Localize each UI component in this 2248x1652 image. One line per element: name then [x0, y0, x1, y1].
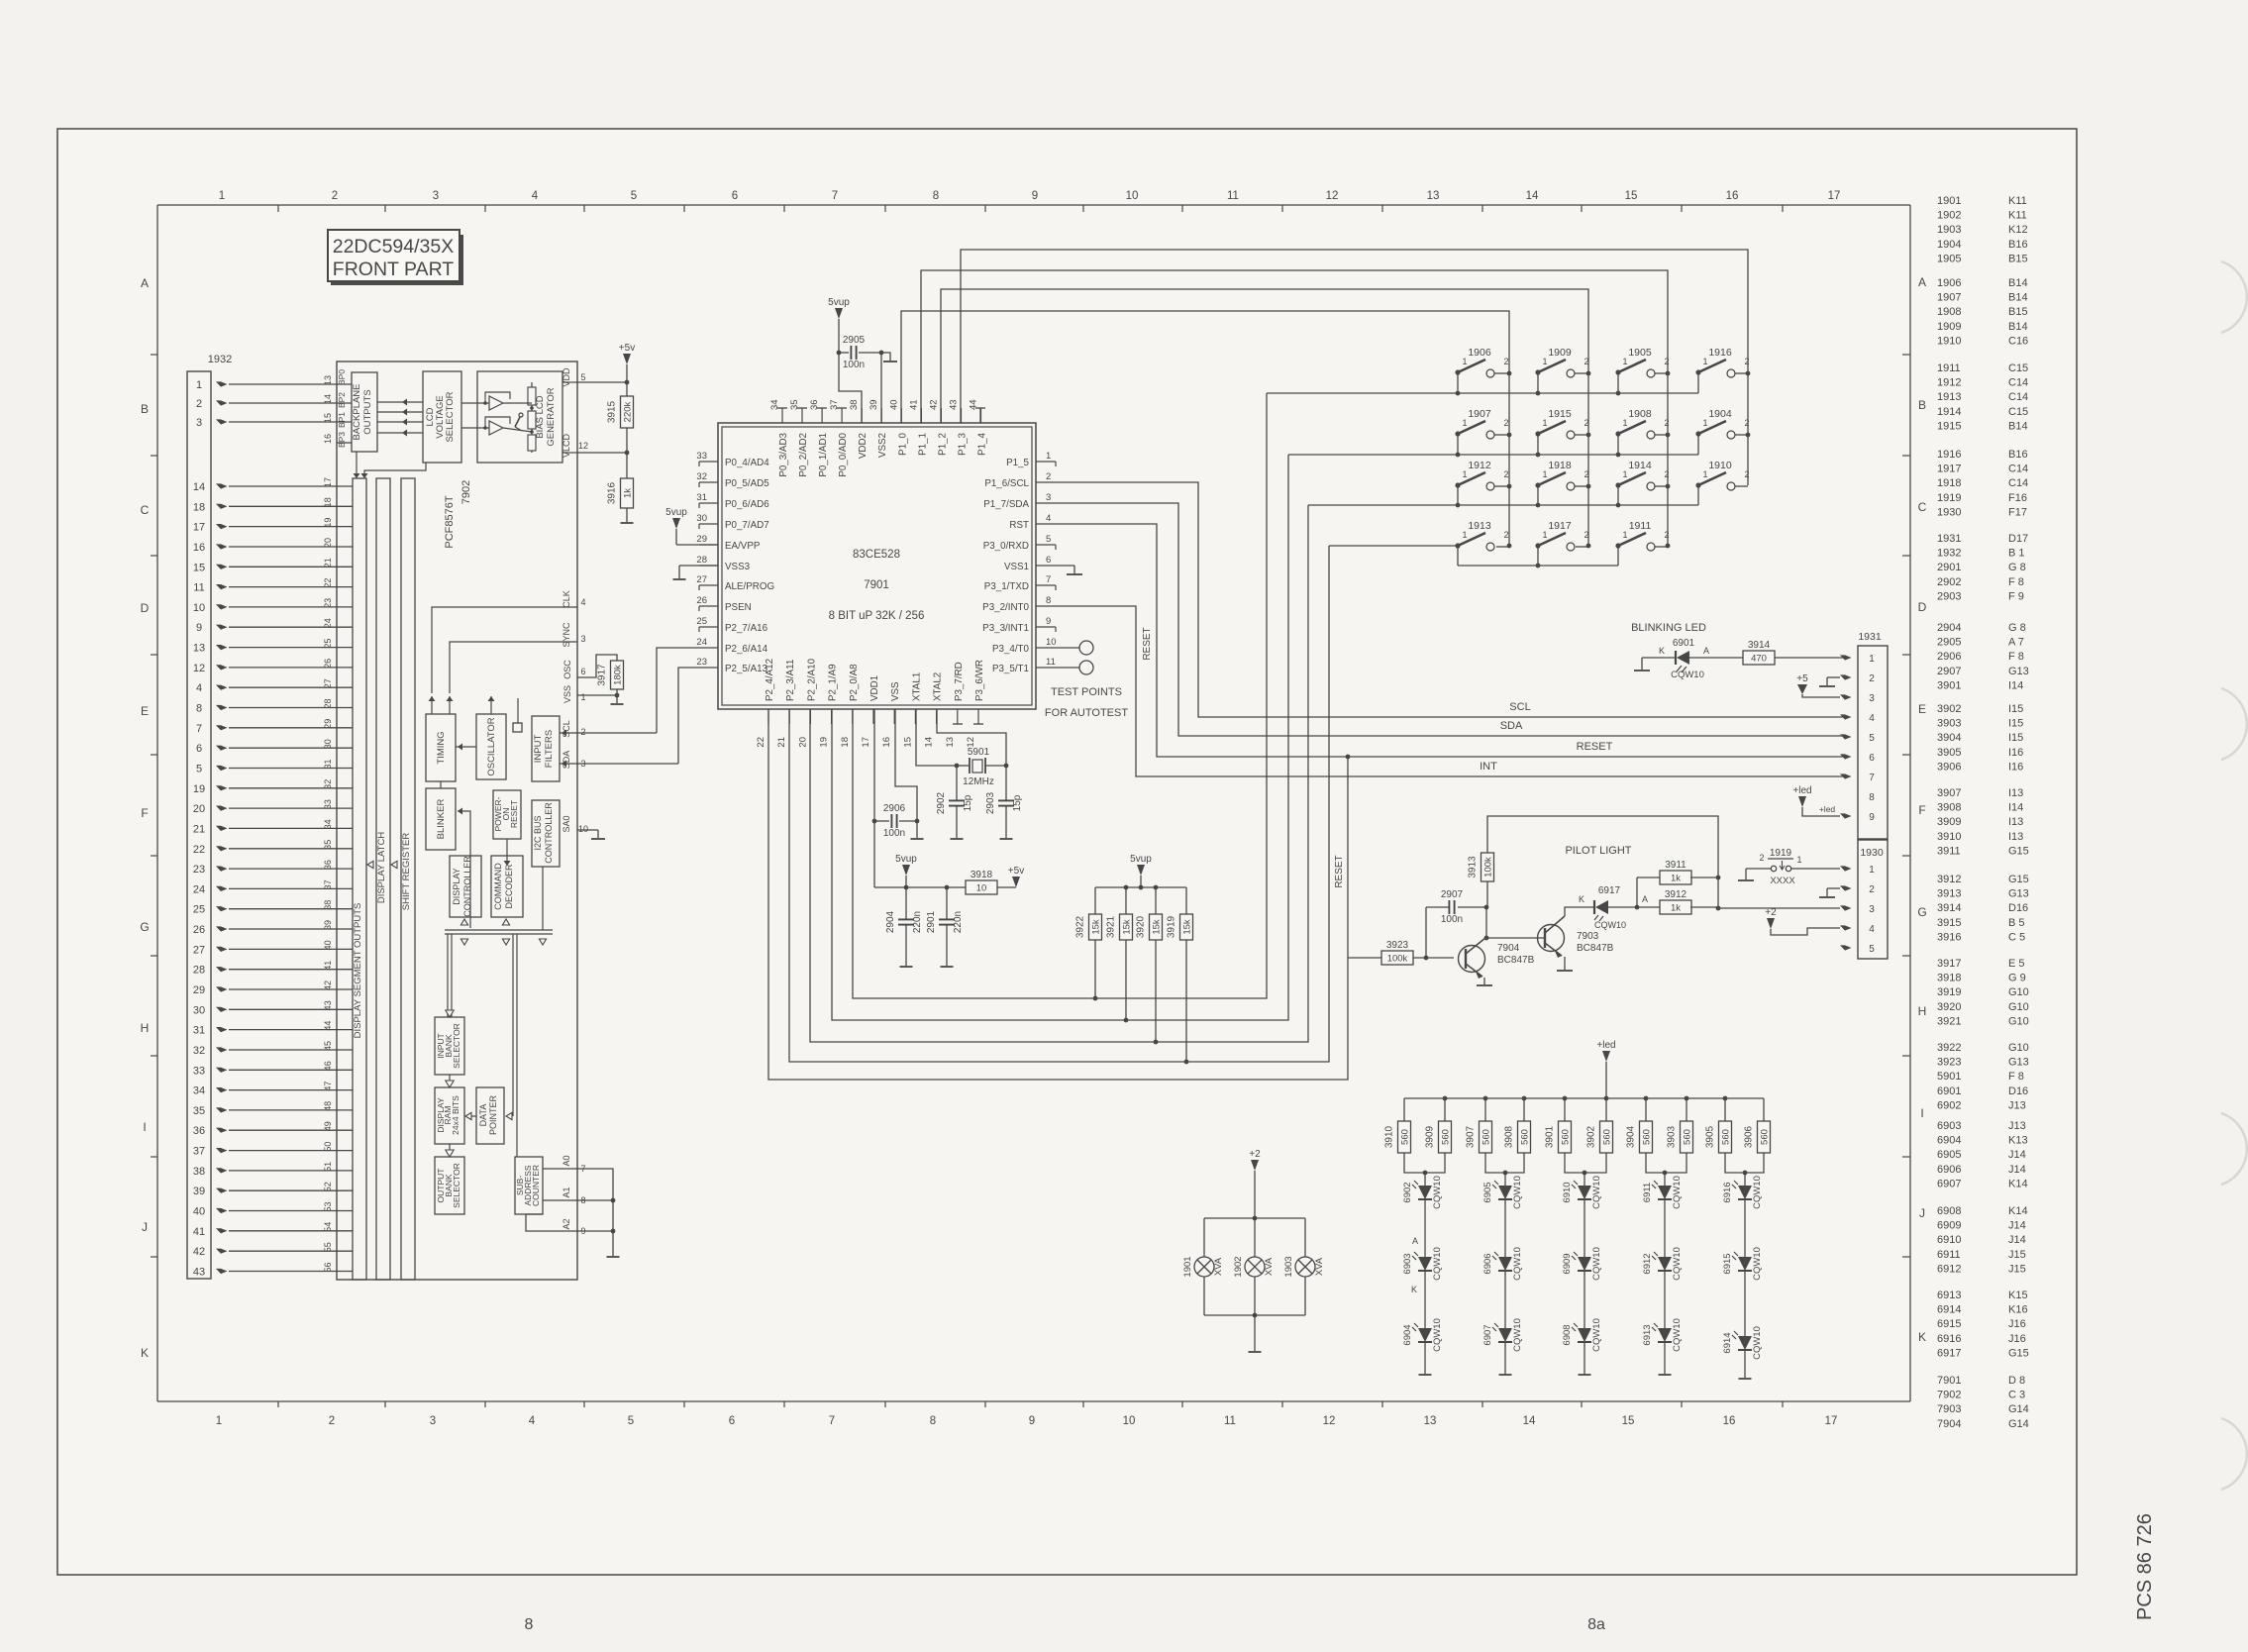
svg-text:DISPLAY: DISPLAY: [452, 868, 461, 904]
ground at 1930 pin 2: [1819, 888, 1840, 897]
svg-text:J: J: [142, 1220, 148, 1234]
svg-text:1: 1: [1542, 357, 1547, 366]
P1_4 pin 44 stub: [979, 408, 981, 423]
svg-text:7904: 7904: [1497, 943, 1520, 954]
svg-text:33: 33: [193, 1065, 205, 1077]
svg-text:560: 560: [1602, 1129, 1613, 1145]
svg-text:3902: 3902: [1586, 1125, 1597, 1148]
svg-text:SYNC: SYNC: [562, 622, 571, 648]
svg-text:8: 8: [933, 190, 939, 202]
svg-text:6912: 6912: [1642, 1253, 1653, 1274]
svg-text:2: 2: [1584, 357, 1588, 366]
svg-text:3914: 3914: [1748, 640, 1771, 651]
P2_0 pin 18 wire to key row 1 feed: [853, 393, 1267, 998]
svg-text:1: 1: [1542, 469, 1547, 479]
timing box: [426, 714, 456, 781]
svg-text:3919: 3919: [1167, 915, 1177, 938]
svg-text:15p: 15p: [1012, 794, 1023, 811]
svg-text:2: 2: [1869, 884, 1875, 895]
PCF backplane pin numbers 13-16: [323, 375, 333, 444]
svg-text:4: 4: [580, 597, 585, 607]
svg-text:1932: 1932: [208, 354, 232, 365]
VDD1 pin 17 wire to 5v rail: [872, 709, 877, 887]
svg-text:3: 3: [1869, 904, 1875, 915]
svg-text:2903: 2903: [1937, 590, 1961, 602]
svg-text:POINTER: POINTER: [488, 1095, 498, 1136]
SCL wire from P2_6 pin 24 to PCF: [657, 648, 699, 733]
svg-text:33: 33: [696, 451, 707, 462]
svg-text:15: 15: [323, 413, 333, 423]
svg-text:26: 26: [323, 659, 333, 669]
svg-text:8: 8: [525, 1616, 534, 1633]
svg-text:3913: 3913: [1937, 888, 1961, 900]
svg-text:1911: 1911: [1937, 362, 1961, 374]
switch 1904: [1695, 408, 1749, 439]
svg-text:3918: 3918: [1937, 973, 1961, 984]
svg-text:1932: 1932: [1937, 548, 1961, 560]
svg-text:2906: 2906: [1937, 651, 1961, 663]
svg-text:1: 1: [1796, 855, 1801, 865]
SDA wire from P2_5 pin 23 to PCF: [678, 668, 699, 764]
svg-text:2: 2: [580, 727, 585, 737]
svg-text:XVA: XVA: [1213, 1257, 1224, 1276]
test point circle pin 10: [1056, 641, 1093, 655]
svg-text:2905: 2905: [843, 335, 866, 346]
svg-text:10: 10: [1046, 637, 1057, 648]
svg-text:P0_5/AD5: P0_5/AD5: [725, 478, 769, 489]
svg-text:B14: B14: [2008, 277, 2028, 289]
svg-text:4: 4: [1869, 713, 1875, 724]
switch 1916: [1695, 347, 1749, 377]
svg-text:2902: 2902: [936, 791, 947, 814]
svg-text:G10: G10: [2008, 1042, 2029, 1054]
switch 1912: [1455, 460, 1509, 490]
svg-text:BC847B: BC847B: [1497, 955, 1535, 966]
resistor 3912 1k: [1637, 878, 1720, 914]
svg-text:20: 20: [193, 803, 205, 815]
RST pin 4 wire to RESET line: [1056, 524, 1843, 757]
svg-text:G10: G10: [2008, 986, 2029, 998]
P1_3 pin 43 wire to switch column 4: [961, 250, 1748, 485]
svg-text:6: 6: [1869, 753, 1875, 764]
svg-text:B15: B15: [2008, 306, 2028, 318]
unconnected stub ticks: [699, 408, 1056, 724]
svg-text:4: 4: [532, 190, 539, 202]
bus to input bank selector: [446, 934, 454, 1017]
test points caption: [1045, 686, 1128, 719]
svg-text:8: 8: [196, 703, 202, 715]
bias generator opamp symbols: [461, 392, 510, 435]
svg-text:P2_4/A12: P2_4/A12: [765, 659, 775, 701]
svg-text:1912: 1912: [1937, 377, 1961, 389]
svg-text:21: 21: [323, 558, 333, 568]
wires into display bus tops: [354, 452, 427, 478]
svg-text:15k: 15k: [1152, 919, 1163, 935]
svg-text:32: 32: [323, 779, 333, 789]
svg-text:7901: 7901: [864, 579, 889, 591]
A0 A1 A2 pins with external wires and ground: [526, 1155, 620, 1257]
svg-text:33: 33: [323, 799, 333, 809]
svg-text:13: 13: [945, 737, 956, 748]
svg-text:CQW10: CQW10: [1591, 1176, 1602, 1209]
svg-text:15p: 15p: [963, 794, 973, 811]
svg-text:17: 17: [1825, 1415, 1838, 1427]
switch 1915: [1535, 408, 1588, 439]
svg-text:SDA: SDA: [1500, 720, 1523, 732]
svg-text:11: 11: [1046, 657, 1056, 668]
resistor 3909 560: [1425, 1098, 1452, 1153]
connector 1931 pin numbers and arrows: [1840, 654, 1875, 823]
svg-text:5: 5: [196, 764, 202, 775]
svg-text:3901: 3901: [1545, 1125, 1556, 1148]
svg-text:3921: 3921: [1937, 1015, 1961, 1027]
svg-text:VSS3: VSS3: [725, 562, 751, 572]
switch 1906: [1455, 347, 1509, 377]
svg-text:47: 47: [323, 1082, 333, 1091]
svg-text:5vup: 5vup: [828, 297, 850, 308]
svg-text:K13: K13: [2008, 1135, 2028, 1147]
svg-text:5: 5: [628, 1415, 634, 1427]
svg-text:16: 16: [323, 434, 333, 444]
svg-text:I: I: [1920, 1106, 1923, 1120]
svg-text:1k: 1k: [623, 488, 634, 498]
svg-text:OSCILLATOR: OSCILLATOR: [486, 717, 497, 775]
svg-text:54: 54: [323, 1222, 333, 1232]
page border frame: [57, 129, 2077, 1575]
svg-text:7: 7: [1869, 773, 1875, 783]
SYNC pin 3 internal wire: [450, 622, 586, 693]
svg-text:22: 22: [323, 578, 333, 588]
BP0 BP2 BP1 BP3 labels: [337, 369, 347, 448]
svg-text:DISPLAY SEGMENT OUTPUTS: DISPLAY SEGMENT OUTPUTS: [353, 903, 363, 1039]
svg-text:43: 43: [323, 1000, 333, 1010]
svg-text:VDD1: VDD1: [869, 675, 880, 701]
svg-text:B14: B14: [2008, 420, 2028, 432]
svg-text:42: 42: [323, 981, 333, 990]
svg-text:6905: 6905: [1937, 1149, 1961, 1161]
svg-text:6904: 6904: [1937, 1135, 1961, 1147]
svg-text:10: 10: [193, 602, 205, 614]
svg-text:B: B: [141, 402, 149, 416]
svg-text:G14: G14: [2008, 1418, 2029, 1430]
LED 6901 CQW10 with ground: [1634, 638, 1743, 680]
SDA pin 3 wires: [560, 751, 586, 770]
resistor pair join at x=1681: [1646, 1153, 1686, 1175]
svg-text:1915: 1915: [1937, 420, 1961, 432]
svg-text:6916: 6916: [1937, 1333, 1961, 1345]
svg-text:2902: 2902: [1937, 576, 1961, 588]
svg-text:15k: 15k: [1182, 919, 1193, 935]
svg-text:7901: 7901: [1937, 1375, 1961, 1387]
svg-text:J14: J14: [2008, 1149, 2026, 1161]
svg-text:1906: 1906: [1937, 277, 1961, 289]
svg-text:F: F: [1918, 803, 1925, 817]
P2_3 pin 21 wire to key row 4 feed: [789, 546, 1329, 1062]
svg-text:2906: 2906: [883, 803, 906, 814]
svg-text:SELECTOR: SELECTOR: [452, 1163, 461, 1208]
svg-text:3905: 3905: [1705, 1125, 1716, 1148]
svg-text:B16: B16: [2008, 239, 2028, 251]
svg-text:I15: I15: [2008, 718, 2023, 730]
switch 1914: [1615, 460, 1669, 490]
svg-text:9: 9: [196, 622, 202, 634]
svg-text:6915: 6915: [1937, 1318, 1961, 1330]
svg-text:G13: G13: [2008, 888, 2029, 900]
svg-text:A1: A1: [562, 1187, 571, 1197]
svg-text:7903: 7903: [1937, 1403, 1961, 1415]
svg-text:1: 1: [1702, 469, 1707, 479]
svg-text:J16: J16: [2008, 1333, 2026, 1345]
svg-text:2904: 2904: [885, 910, 896, 933]
bias generator resistor chain and switch: [503, 382, 536, 453]
svg-text:K14: K14: [2008, 1205, 2028, 1217]
svg-text:28: 28: [323, 698, 333, 708]
svg-text:7904: 7904: [1937, 1418, 1961, 1430]
svg-text:COMMAND: COMMAND: [493, 863, 503, 910]
svg-text:P0_2/AD2: P0_2/AD2: [798, 433, 809, 477]
svg-text:19: 19: [819, 737, 830, 748]
resistor 3906 560: [1744, 1098, 1771, 1153]
svg-text:2: 2: [1869, 673, 1875, 684]
svg-text:2: 2: [1759, 853, 1764, 863]
svg-text:1: 1: [1702, 418, 1707, 428]
svg-text:7902: 7902: [460, 480, 472, 504]
svg-text:5: 5: [1046, 534, 1051, 545]
LED 6917 CQW10: [1565, 885, 1648, 930]
test point circle pin 11: [1056, 661, 1093, 674]
svg-text:P3_7/RD: P3_7/RD: [954, 662, 965, 701]
LED 6902 CQW10: [1402, 1176, 1443, 1209]
svg-text:+led: +led: [1819, 804, 1836, 814]
svg-text:560: 560: [1441, 1129, 1452, 1145]
svg-text:A: A: [1642, 894, 1648, 904]
svg-text:12: 12: [193, 663, 205, 674]
svg-text:52: 52: [323, 1182, 333, 1191]
svg-text:P0_6/AD6: P0_6/AD6: [725, 499, 769, 510]
binder hole arcs right margin: [2221, 261, 2247, 1490]
svg-text:25: 25: [323, 639, 333, 649]
svg-text:J16: J16: [2008, 1318, 2026, 1330]
svg-text:K16: K16: [2008, 1304, 2028, 1316]
svg-text:15: 15: [1625, 190, 1638, 202]
svg-text:27: 27: [193, 944, 205, 956]
svg-text:36: 36: [193, 1125, 205, 1137]
svg-text:2: 2: [1664, 418, 1669, 428]
svg-text:15: 15: [902, 737, 913, 748]
LED 6912 CQW10: [1642, 1247, 1683, 1281]
shift register bus: [401, 478, 415, 1280]
svg-text:K15: K15: [2008, 1290, 2028, 1301]
svg-text:32: 32: [193, 1045, 205, 1057]
svg-text:1: 1: [1622, 469, 1627, 479]
svg-text:6913: 6913: [1642, 1324, 1653, 1345]
svg-text:9: 9: [1032, 190, 1038, 202]
svg-text:XTAL2: XTAL2: [933, 672, 944, 701]
svg-text:J13: J13: [2008, 1120, 2026, 1132]
svg-text:+led: +led: [1792, 785, 1811, 796]
svg-text:1: 1: [1462, 530, 1467, 540]
svg-text:8a: 8a: [1587, 1616, 1605, 1633]
svg-text:17: 17: [1828, 190, 1841, 202]
svg-text:3920: 3920: [1937, 1001, 1961, 1013]
svg-text:K: K: [1579, 894, 1584, 904]
svg-text:26: 26: [193, 924, 205, 936]
resistor 3920 15k: [1136, 887, 1163, 1044]
svg-text:BIAS LCD: BIAS LCD: [535, 395, 546, 438]
resistor 3919 15k: [1167, 887, 1193, 1064]
svg-text:I14: I14: [2008, 679, 2023, 691]
svg-text:6912: 6912: [1937, 1263, 1961, 1275]
svg-text:J15: J15: [2008, 1263, 2026, 1275]
row letters left: [140, 276, 149, 1360]
svg-text:J15: J15: [2008, 1249, 2026, 1261]
svg-text:4: 4: [1046, 513, 1051, 524]
svg-text:9: 9: [1869, 812, 1875, 823]
column numbers bottom: [216, 1415, 1838, 1427]
svg-text:12: 12: [966, 737, 976, 748]
CLK pin 4 internal wire: [432, 590, 586, 693]
svg-text:D 8: D 8: [2008, 1375, 2025, 1387]
svg-text:2: 2: [1744, 418, 1749, 428]
svg-text:220n: 220n: [953, 911, 964, 933]
svg-text:3923: 3923: [1386, 940, 1409, 951]
svg-text:470: 470: [1751, 654, 1767, 665]
svg-text:6: 6: [580, 667, 585, 676]
svg-text:28: 28: [696, 555, 707, 566]
command decoder box: [491, 856, 523, 917]
oscillator box: [476, 714, 506, 779]
svg-text:G 8: G 8: [2008, 562, 2026, 573]
svg-text:CQW10: CQW10: [1591, 1318, 1602, 1352]
svg-text:P2_7/A16: P2_7/A16: [725, 623, 768, 634]
svg-text:1902: 1902: [1233, 1256, 1244, 1277]
svg-text:A: A: [1703, 646, 1709, 656]
svg-text:30: 30: [323, 739, 333, 749]
5vup arrow for pullups: [1130, 854, 1152, 887]
svg-text:E 5: E 5: [2008, 958, 2025, 970]
svg-text:40: 40: [888, 399, 899, 410]
lamp 1901 XVA: [1182, 1256, 1224, 1277]
svg-text:TEST POINTS: TEST POINTS: [1051, 686, 1122, 698]
svg-text:27: 27: [696, 574, 707, 585]
svg-text:6911: 6911: [1642, 1183, 1653, 1202]
svg-text:K11: K11: [2008, 195, 2027, 207]
svg-text:1913: 1913: [1468, 520, 1491, 532]
svg-text:P2_6/A14: P2_6/A14: [725, 644, 768, 655]
OSC pin 6 wire and resistor 3917 180k: [562, 655, 624, 697]
svg-text:18: 18: [323, 497, 333, 507]
svg-text:40: 40: [193, 1206, 205, 1218]
VLCD pin 12 wire and label: [562, 434, 629, 459]
svg-text:5: 5: [1869, 733, 1875, 744]
svg-text:7: 7: [832, 190, 838, 202]
VSS pin 1 wire with ground: [562, 685, 624, 704]
svg-text:6905: 6905: [1482, 1182, 1493, 1202]
svg-text:3: 3: [1046, 492, 1051, 503]
RESET riser junction and label: [1334, 755, 1350, 888]
svg-text:2907: 2907: [1937, 666, 1961, 677]
svg-text:C16: C16: [2008, 335, 2028, 347]
svg-text:BACKPLANE: BACKPLANE: [352, 383, 362, 440]
svg-text:A2: A2: [562, 1218, 571, 1229]
svg-text:I15: I15: [2008, 732, 2023, 744]
svg-text:12MHz: 12MHz: [963, 776, 994, 787]
svg-text:2: 2: [1503, 357, 1508, 366]
svg-text:27: 27: [323, 678, 333, 688]
svg-text:1903: 1903: [1937, 224, 1961, 236]
svg-text:1908: 1908: [1937, 306, 1961, 318]
svg-text:P3_4/T0: P3_4/T0: [992, 644, 1030, 655]
svg-text:50: 50: [323, 1142, 333, 1152]
IC 7901 83CE528 microprocessor: [718, 423, 1036, 709]
svg-text:P1_1: P1_1: [917, 433, 928, 456]
svg-text:K: K: [1918, 1330, 1926, 1344]
LED 6916 CQW10: [1722, 1176, 1763, 1209]
svg-text:ALE/PROG: ALE/PROG: [725, 581, 774, 592]
svg-text:3923: 3923: [1937, 1057, 1961, 1069]
svg-text:G13: G13: [2008, 1057, 2029, 1069]
XTAL1 pin 15 wire: [916, 709, 959, 768]
svg-text:29: 29: [323, 719, 333, 729]
svg-text:PILOT LIGHT: PILOT LIGHT: [1565, 845, 1631, 857]
svg-text:3902: 3902: [1937, 703, 1961, 715]
svg-text:14: 14: [193, 481, 205, 493]
svg-text:A: A: [1918, 275, 1926, 289]
svg-text:BP0: BP0: [337, 369, 347, 385]
svg-text:COUNTER: COUNTER: [531, 1165, 541, 1206]
ruler tick marks: [278, 205, 1783, 1407]
svg-text:100k: 100k: [1387, 954, 1408, 965]
svg-text:F16: F16: [2008, 492, 2027, 504]
svg-text:CQW10: CQW10: [1752, 1326, 1763, 1360]
resistor 3908 560: [1504, 1098, 1531, 1153]
svg-text:38: 38: [323, 900, 333, 910]
svg-text:34: 34: [323, 819, 333, 829]
svg-text:K: K: [1411, 1285, 1417, 1294]
svg-text:24x4 BITS: 24x4 BITS: [451, 1095, 460, 1135]
svg-text:CQW10: CQW10: [1594, 920, 1626, 930]
svg-text:3907: 3907: [1937, 787, 1961, 799]
svg-text:1: 1: [1542, 418, 1547, 428]
svg-text:5: 5: [580, 372, 585, 382]
svg-text:3914: 3914: [1937, 902, 1961, 914]
svg-text:32: 32: [696, 471, 707, 482]
svg-text:56: 56: [323, 1262, 333, 1272]
svg-text:+2: +2: [1249, 1149, 1261, 1160]
svg-text:14: 14: [323, 394, 333, 404]
lamp parallel rails: [1204, 1218, 1305, 1352]
svg-text:D: D: [1918, 600, 1927, 614]
svg-text:6904: 6904: [1402, 1324, 1413, 1345]
P1_0 pin 40 wire to switch column 1: [901, 311, 1509, 546]
svg-text:6901: 6901: [1937, 1085, 1961, 1097]
switch 1918: [1535, 460, 1588, 490]
svg-text:2901: 2901: [926, 910, 937, 933]
svg-text:3909: 3909: [1937, 816, 1961, 828]
5v supply rail with 5vup arrow: [874, 854, 967, 889]
svg-text:1930: 1930: [1860, 847, 1884, 859]
svg-text:6907: 6907: [1482, 1324, 1493, 1345]
svg-text:VSS: VSS: [890, 681, 901, 701]
svg-text:34: 34: [193, 1085, 205, 1097]
svg-text:C15: C15: [2008, 362, 2028, 374]
svg-text:P1_2: P1_2: [937, 433, 948, 456]
svg-text:J14: J14: [2008, 1164, 2026, 1176]
svg-text:C14: C14: [2008, 377, 2028, 389]
svg-text:1k: 1k: [1671, 874, 1681, 884]
svg-text:P0_7/AD7: P0_7/AD7: [725, 520, 769, 531]
svg-text:18: 18: [840, 737, 851, 748]
